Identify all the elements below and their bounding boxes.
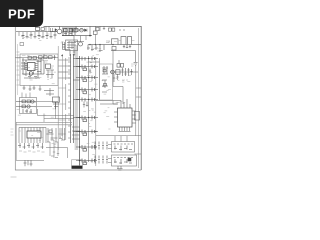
output rung 5: [76, 98, 98, 102]
secondary rail B: [88, 56, 90, 162]
title block bar: [72, 166, 83, 169]
capacitor ticks under bus right: [123, 45, 131, 49]
resistor R821 top: [96, 28, 99, 31]
dense parts around U1: [21, 57, 44, 79]
resistor R823: [112, 28, 115, 31]
ground symbol right: [134, 63, 138, 66]
wire across under ICs: [96, 135, 141, 137]
label specks right cluster: [122, 64, 134, 82]
secondary rail A: [79, 56, 81, 168]
scan fold shading band: [75, 45, 78, 150]
secondary outer rail: [99, 58, 101, 100]
primary line wire: [62, 35, 92, 37]
parts below Q602: [73, 50, 75, 56]
capacitor tick top: [103, 26, 105, 30]
aux box right of U101: [135, 112, 140, 121]
stubs below sub-board: [24, 160, 33, 166]
wire h mid upper: [38, 115, 75, 117]
primary cluster components: [62, 28, 77, 36]
output rung 1: [76, 57, 98, 61]
top AC input bus wire: [16, 32, 57, 39]
junction dots on rail B: [88, 58, 97, 148]
vertical primary wire right: [89, 27, 91, 36]
glyphs below riser: [51, 152, 59, 158]
stubs into box 1: [115, 136, 127, 142]
T1 top H-link: [63, 42, 71, 56]
output rung 2: [76, 65, 98, 71]
output rung 9: [76, 159, 97, 165]
diode cluster below rung 5: [83, 102, 88, 108]
resistor R807: [117, 64, 120, 68]
left stubs to boxes: [108, 145, 112, 163]
wire tie 2: [136, 96, 141, 98]
lower-left sub-board sides: [16, 122, 44, 160]
capacitor ticks q801: [121, 68, 129, 76]
wire h mid: [44, 118, 74, 120]
junction dots on rail A: [79, 66, 81, 162]
resistor R808: [121, 64, 124, 68]
wire top frame drop left: [75, 27, 77, 31]
junction dots top right: [119, 29, 124, 30]
resistor R804: [112, 46, 116, 50]
IC U101 body: [118, 108, 133, 127]
T1 rung wires: [58, 72, 66, 134]
sub board outline right: [100, 64, 113, 100]
parts below box: [23, 86, 42, 92]
resistor R601: [74, 28, 78, 31]
stubs above mid-left sub-board: [22, 93, 30, 98]
connector pin array group B: [94, 156, 108, 164]
output rung 7: [76, 130, 98, 136]
wires top frame drops: [96, 27, 101, 32]
small cluster center: [53, 97, 60, 109]
wire stub: [113, 101, 118, 105]
jungle IC comb wires: [19, 128, 46, 144]
resistor row top of box: R611: [39, 56, 43, 59]
U101 left pins: [114, 112, 118, 122]
T1 core bars: [71, 54, 74, 143]
winding hump W2: [121, 37, 132, 45]
wire right rail drop: [135, 66, 137, 136]
resistor R806: [116, 70, 120, 74]
wire hbus into box: [16, 57, 59, 59]
text specks around U1: [22, 55, 54, 68]
output rung 6: [76, 116, 98, 122]
glyph row under comb faint: [19, 151, 45, 152]
capacitor row under bus: [22, 35, 57, 37]
title block outline: [72, 160, 83, 166]
photocoupler PC1: [46, 64, 51, 68]
T1 winding ticks: [66, 58, 71, 140]
output rung 4: [76, 88, 98, 94]
resistor R613: [49, 56, 53, 59]
CRT socket board box 1: [112, 142, 135, 153]
connector pin array group A: [94, 142, 108, 150]
fuse F1: [36, 27, 40, 30]
capacitor C612: [53, 55, 55, 60]
filter choke L1: [41, 28, 44, 31]
U101 bottom pin row: [119, 127, 131, 132]
control block box: [66, 40, 78, 51]
heater circuit cluster right: wire: [110, 71, 138, 73]
CRT socket board box 2: [112, 155, 137, 166]
wire drop left: [73, 36, 75, 50]
secondary rail C: [95, 57, 97, 166]
connector wires to transformer: [72, 127, 80, 139]
left pin label column: [17, 52, 20, 85]
degauss label text: [106, 41, 110, 43]
junction dot T1: [61, 55, 63, 57]
resistor R612: [44, 56, 48, 59]
svg-text:PDF: PDF: [8, 7, 35, 22]
resistor glyph left low: [20, 43, 24, 46]
parts under comb: [18, 143, 44, 149]
sheet border frame: [15, 26, 141, 170]
resistor R822: [109, 28, 112, 31]
drive cluster top: wire: [70, 29, 87, 31]
wires mid area: [37, 102, 59, 107]
parts dangling below heater cluster: [113, 74, 119, 82]
IC U51 body: [27, 131, 41, 138]
IC U1: [28, 63, 36, 71]
wire degauss loop: [111, 51, 136, 62]
transistor Q601: [80, 28, 84, 32]
capacitor C810: [130, 69, 132, 75]
parts in box 2: [114, 158, 134, 165]
wire T1 to rail crossings: [73, 59, 79, 132]
left frame inner line: [17, 44, 19, 95]
parts mid between box and T1: [44, 70, 54, 96]
ground below box 2: [117, 169, 123, 170]
T1 left winding rail: [62, 54, 64, 140]
switching transformer T1 primary rail: [57, 46, 59, 150]
output rung 3: [76, 76, 98, 82]
PDF badge: [0, 0, 43, 27]
page number speck: [11, 176, 17, 178]
output rung 8: [76, 145, 97, 151]
transistor Q801: [111, 70, 115, 74]
lower-left riser wires: [46, 140, 68, 158]
parts in mid-left sub-board: [16, 100, 36, 113]
winding hump W1: [112, 39, 119, 45]
cluster right of IC: [47, 128, 66, 142]
stubs below box 2: [118, 166, 121, 169]
mid-left small sub-board: [20, 98, 37, 114]
vertical wire right column: [112, 51, 114, 87]
bridge rectifier D1: [50, 27, 62, 34]
wire r615 down: [95, 34, 97, 44]
wire v mid: [38, 109, 45, 122]
wire stub up: [118, 60, 120, 64]
wires from box to transformer: [44, 54, 70, 78]
diode D601: [85, 29, 88, 32]
junction dots under caps: [22, 37, 55, 39]
label text specks: [17, 34, 135, 163]
parts in sub board: [102, 66, 108, 92]
wire tie 1: [136, 87, 141, 89]
wire right join: [135, 153, 142, 155]
wire L mid right: [113, 87, 123, 105]
primary control sub-board box: [20, 54, 58, 86]
top secondary bus wire: [87, 45, 141, 52]
wire q602: [74, 36, 86, 42]
wire from center cluster down: [55, 102, 57, 118]
wire drops from top frame: [46, 27, 49, 32]
junction dot: [89, 35, 91, 37]
diode cluster below rung 2: [89, 69, 91, 74]
U1 pin stubs: [25, 64, 38, 70]
lower-left sub-board double top edge: [16, 122, 72, 125]
U101 right pins: [132, 111, 136, 123]
parts in box 1: [114, 144, 134, 151]
wire secondary top: [88, 61, 100, 63]
text specks left of comb: [11, 129, 14, 135]
transistor Q602: [79, 42, 83, 46]
parts inside control block: [67, 41, 76, 49]
wires above IC block right: [96, 99, 130, 108]
resistor R615: [93, 31, 97, 34]
diode pair on bus: [51, 28, 58, 32]
junction dots on bus: [89, 44, 113, 45]
